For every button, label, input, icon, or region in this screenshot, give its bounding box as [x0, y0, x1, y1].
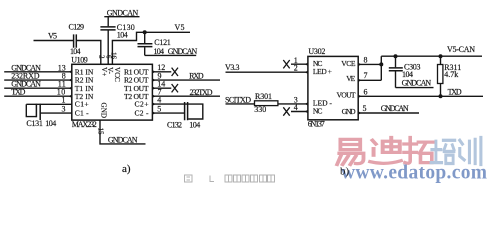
capacitor C131: [26, 96, 72, 128]
svg-text:NC: NC: [313, 107, 323, 116]
net label SCITXD: [225, 95, 255, 104]
wire pin10 TXD: [4, 88, 72, 98]
svg-text:232TXD: 232TXD: [190, 88, 213, 97]
pin wedges U109 right: [152, 70, 155, 115]
svg-text:1: 1: [62, 96, 66, 105]
wire pin4 + no-connect X: [283, 95, 308, 115]
capacitor C303: [389, 56, 434, 87]
watermark glyph 培: [431, 138, 481, 165]
svg-text:a): a): [122, 163, 131, 175]
net label V5: [48, 32, 57, 41]
wire pin15 GNDCAN: [100, 120, 146, 144]
svg-text:GNDCAN: GNDCAN: [108, 135, 138, 144]
svg-text:5: 5: [157, 104, 161, 113]
net label V3.3: [225, 63, 308, 72]
wire V5-CAN rail: [381, 45, 482, 58]
chip U109 MAX232: [71, 52, 152, 135]
svg-text:104: 104: [154, 47, 165, 56]
svg-text:104: 104: [45, 119, 56, 128]
wire pin13 GNDCAN: [4, 63, 72, 73]
wire pin9 RXD: [152, 72, 220, 81]
capacitor C121: [138, 32, 197, 56]
wire pin16 V5 net: [112, 32, 190, 64]
net label V5: [175, 23, 185, 32]
svg-text:C1+: C1+: [75, 100, 89, 109]
watermark glyph 训: [460, 138, 481, 165]
svg-text:330: 330: [254, 105, 266, 114]
svg-text:VOUT: VOUT: [337, 90, 356, 99]
resistor R301: [254, 92, 308, 114]
svg-text:TXD: TXD: [448, 87, 462, 96]
svg-text:C2 -: C2 -: [135, 108, 149, 117]
wire pin7: [358, 64, 381, 80]
wire pin5 GNDCAN: [358, 104, 419, 113]
watermark glyph 拓: [404, 138, 434, 164]
svg-text:SCITXD: SCITXD: [225, 95, 251, 104]
svg-text:4: 4: [294, 103, 298, 112]
resistor R311: [438, 56, 462, 96]
caption figure text (faint): [185, 175, 275, 182]
svg-text:GNDCAN: GNDCAN: [381, 104, 409, 113]
svg-text:VCC: VCC: [113, 67, 121, 82]
svg-text:GNDCAN: GNDCAN: [168, 47, 198, 56]
svg-text:V5-CAN: V5-CAN: [447, 45, 475, 54]
svg-text:V-: V-: [106, 67, 114, 75]
net label GNDCAN: [104, 8, 139, 17]
svg-text:V5: V5: [48, 32, 57, 41]
svg-text:GNDCAN: GNDCAN: [402, 79, 432, 88]
svg-text:U302: U302: [308, 47, 325, 56]
capacitor C129: [69, 23, 85, 57]
wire pin7 232TXD: [152, 88, 220, 97]
wire pin8: [358, 56, 383, 67]
chip U302 6N137: [308, 47, 358, 128]
svg-text:8: 8: [364, 56, 368, 65]
svg-text:3: 3: [62, 105, 66, 114]
svg-text:b): b): [340, 166, 350, 178]
svg-text:R301: R301: [255, 92, 272, 101]
svg-text:U109: U109: [71, 55, 88, 64]
wire pin11 GNDCAN: [4, 80, 72, 90]
svg-text:2: 2: [294, 64, 298, 73]
wire: [77, 41, 101, 65]
svg-text:104: 104: [189, 120, 200, 129]
wire pin8 232RXD: [4, 72, 72, 82]
svg-text:TXD: TXD: [11, 88, 25, 97]
svg-text:4: 4: [157, 96, 161, 105]
svg-text:V5: V5: [175, 23, 185, 32]
svg-text:104: 104: [117, 30, 128, 39]
svg-text:MAX232: MAX232: [72, 120, 97, 129]
svg-text:6: 6: [364, 88, 368, 97]
wire pin6 TXD: [358, 87, 483, 98]
capacitor C130: [100, 17, 134, 65]
svg-text:C129: C129: [69, 23, 85, 32]
svg-text:www.edatop.com: www.edatop.com: [341, 163, 487, 184]
pin wedges U302: [305, 63, 362, 115]
net label GNDCAN: [168, 47, 198, 56]
caption a): [122, 163, 131, 175]
capacitor C132: [152, 96, 202, 130]
wire pin14 + no-connect X: [152, 80, 178, 93]
svg-text:C132: C132: [167, 120, 182, 129]
junction: [143, 30, 147, 34]
svg-text:2: 2: [97, 55, 105, 59]
svg-text:GND: GND: [100, 103, 108, 119]
svg-text:VCE: VCE: [341, 59, 356, 68]
svg-text:LED +: LED +: [313, 67, 332, 76]
svg-text:GND: GND: [342, 107, 357, 116]
svg-text:6N137: 6N137: [308, 120, 325, 129]
svg-text:C131: C131: [26, 119, 43, 128]
svg-text:7: 7: [364, 71, 368, 80]
wire pin12 + no-connect X: [152, 63, 178, 76]
svg-text:C121: C121: [154, 38, 171, 47]
wire: [34, 40, 74, 42]
svg-text:16: 16: [109, 52, 117, 60]
watermark glyph 迪: [370, 138, 401, 164]
svg-text:5: 5: [363, 104, 367, 113]
svg-text:VE: VE: [346, 74, 355, 83]
watermark logo: glyph 易: [337, 138, 434, 165]
svg-text:C2+: C2+: [135, 100, 149, 109]
wire pin1 + no-connect X: [283, 56, 308, 73]
svg-text:4.7k: 4.7k: [444, 70, 458, 79]
svg-text:C1 -: C1 -: [75, 108, 89, 117]
svg-text:V3.3: V3.3: [225, 63, 240, 72]
svg-text:RXD: RXD: [189, 72, 204, 81]
